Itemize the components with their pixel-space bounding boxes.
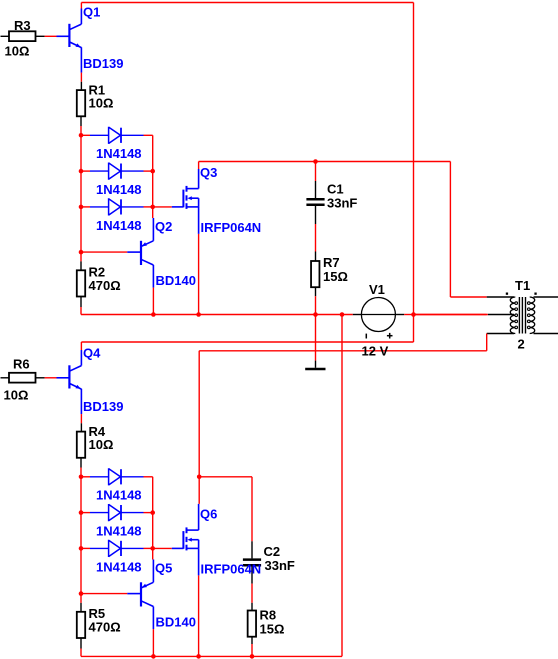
svg-text:1N4148: 1N4148 [96,488,142,503]
svg-text:Q2: Q2 [155,219,172,234]
svg-text:Q5: Q5 [155,561,172,576]
svg-text:C2: C2 [264,544,281,559]
svg-text:10Ω: 10Ω [4,388,29,403]
svg-text:IRFP064N: IRFP064N [201,220,262,235]
svg-text:1N4148: 1N4148 [96,182,142,197]
svg-text:T1: T1 [515,278,530,293]
svg-text:R6: R6 [13,357,30,372]
svg-text:1N4148: 1N4148 [96,146,142,161]
svg-text:C1: C1 [327,182,344,197]
svg-text:15Ω: 15Ω [260,622,285,637]
svg-text:12 V: 12 V [362,344,389,359]
svg-text:Q4: Q4 [83,346,101,361]
svg-text:15Ω: 15Ω [323,269,348,284]
svg-text:Q1: Q1 [83,5,100,20]
svg-text:1N4148: 1N4148 [96,524,142,539]
svg-text:10Ω: 10Ω [89,437,114,452]
svg-text:BD139: BD139 [83,56,123,71]
svg-text:1N4148: 1N4148 [96,218,142,233]
svg-text:1N4148: 1N4148 [96,560,142,575]
svg-text:R8: R8 [260,608,277,623]
svg-text:R7: R7 [323,255,340,270]
svg-text:2: 2 [518,337,525,352]
svg-text:10Ω: 10Ω [89,96,114,111]
svg-text:BD139: BD139 [83,399,123,414]
svg-text:Q6: Q6 [200,507,217,522]
svg-text:R3: R3 [14,18,31,33]
svg-text:IRFP064N: IRFP064N [201,561,262,576]
svg-text:10Ω: 10Ω [5,44,30,59]
svg-text:V1: V1 [369,282,385,297]
svg-text:470Ω: 470Ω [89,278,121,293]
svg-text:BD140: BD140 [156,615,196,630]
svg-text:33nF: 33nF [327,196,357,211]
svg-text:33nF: 33nF [265,558,295,573]
svg-text:BD140: BD140 [156,273,196,288]
svg-text:Q3: Q3 [200,165,217,180]
svg-text:470Ω: 470Ω [89,620,121,635]
